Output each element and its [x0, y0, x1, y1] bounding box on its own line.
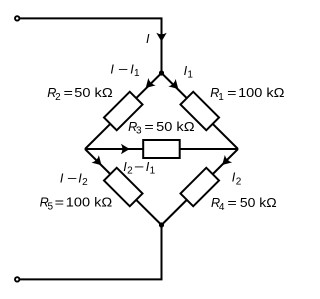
svg-text:=: = [144, 120, 153, 134]
label I - I1 [110, 62, 140, 79]
svg-text:=: = [55, 196, 64, 210]
svg-text:=: = [227, 86, 236, 100]
svg-text:50 kΩ: 50 kΩ [156, 120, 194, 134]
svg-text:I: I [146, 32, 150, 46]
svg-text:−: − [67, 171, 77, 185]
svg-text:=: = [227, 196, 236, 210]
wire top (terminal to corner to top node) [20, 18, 162, 73]
resistor R5 [104, 168, 143, 207]
svg-text:−: − [118, 62, 128, 76]
label R1 value [210, 86, 284, 103]
node top junction [159, 70, 164, 75]
label I2 - I1 [123, 160, 155, 177]
resistor R1 [180, 92, 219, 131]
label I - I2 [60, 171, 88, 188]
resistor R4 [180, 168, 219, 207]
wire bottom (bottom node to corner to terminal) [20, 225, 162, 279]
wire top-left branch [85, 73, 162, 149]
current arrow I [156, 33, 166, 42]
node bottom junction [159, 222, 164, 227]
wire top-right branch [162, 73, 239, 149]
current arrow I2 [219, 155, 233, 169]
current arrow I - I2 [92, 155, 106, 169]
wire middle branch [85, 148, 238, 150]
svg-text:50 kΩ: 50 kΩ [240, 196, 277, 210]
svg-text:=: = [64, 86, 73, 100]
svg-text:I: I [60, 171, 64, 185]
resistor R2 [104, 92, 143, 131]
svg-text:100 kΩ: 100 kΩ [66, 196, 112, 210]
terminal bottom-left [15, 277, 19, 281]
resistor R3 [143, 140, 180, 158]
svg-text:50 kΩ: 50 kΩ [74, 86, 112, 100]
svg-text:−: − [134, 160, 144, 174]
svg-text:I: I [110, 62, 114, 76]
current arrow I2 - I1 [121, 144, 130, 154]
label R4 value [211, 196, 277, 213]
wire bottom-right branch [162, 149, 239, 225]
wire bottom-left branch [85, 149, 162, 225]
label R2 value [47, 86, 113, 103]
label R5 value [40, 196, 113, 213]
terminal top-left [15, 16, 19, 20]
current arrow I1 [168, 79, 182, 93]
current arrow I - I1 [142, 78, 156, 92]
svg-text:100 kΩ: 100 kΩ [238, 86, 284, 100]
label R3 value [128, 120, 195, 137]
